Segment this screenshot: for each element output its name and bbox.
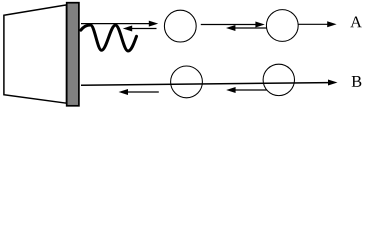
wire: line circle2 to A arrow — [299, 23, 329, 25]
molecule circle 2 (top row) — [266, 10, 298, 42]
wire: wave propagation arrow line — [81, 23, 150, 25]
molecule circle 1 (top row) — [164, 10, 196, 42]
arrowhead right (to label B) — [328, 80, 338, 86]
wire: line circle1 to circle2 — [201, 24, 257, 26]
molecule circle 3 (bottom row) — [171, 66, 203, 98]
label B — [352, 76, 362, 87]
speaker front panel — [67, 3, 79, 106]
arrowhead right (toward circle 2) — [255, 22, 264, 28]
label A — [350, 16, 362, 27]
arrowhead left (reflected bottom left) — [119, 89, 128, 95]
arrowhead left (reflected top middle) — [226, 25, 235, 31]
wire: bottom main line through circles — [81, 83, 328, 86]
molecule circle 4 (bottom row) — [263, 64, 294, 95]
arrowhead left (reflected bottom middle) — [226, 87, 235, 93]
arrowhead right (to label A) — [327, 21, 336, 27]
wire: reflected arrow line (top middle) — [234, 27, 267, 29]
wire: reflected arrow line (top left) — [131, 28, 157, 30]
arrowhead left (reflected top left) — [123, 26, 132, 32]
wire: reflected arrow line (bottom left) — [127, 91, 159, 93]
speaker cone — [4, 5, 67, 103]
arrowhead right (wave arrow) — [149, 21, 158, 27]
sound wave squiggle — [81, 25, 137, 51]
wire: reflected arrow line (bottom middle) — [235, 89, 267, 91]
